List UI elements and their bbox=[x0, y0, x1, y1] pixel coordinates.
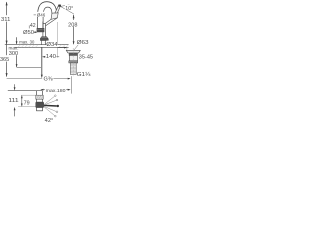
svg-text:G⅜: G⅜ bbox=[44, 76, 54, 82]
svg-text:300: 300 bbox=[9, 51, 19, 57]
svg-text:42: 42 bbox=[30, 23, 36, 29]
node: rod end circles bbox=[54, 95, 57, 117]
svg-text:max.180: max.180 bbox=[46, 88, 66, 94]
shank through deck bbox=[41, 41, 45, 45]
waste body bbox=[69, 55, 77, 60]
gasket bbox=[69, 53, 78, 55]
svg-text:42°: 42° bbox=[45, 118, 54, 124]
wire: left dimension line 311/365 bbox=[6, 2, 8, 76]
svg-text:111: 111 bbox=[8, 98, 18, 104]
node: arrowheads on left dim line bbox=[6, 2, 8, 77]
svg-text:208: 208 bbox=[68, 22, 77, 28]
wire: max180 dimension bbox=[41, 89, 45, 91]
aerator bbox=[37, 28, 44, 32]
label 365 bbox=[0, 55, 10, 63]
deck cross-section bbox=[5, 45, 69, 48]
faucet head bbox=[51, 13, 58, 20]
svg-text:Ø46: Ø46 bbox=[37, 12, 46, 17]
lower ring bbox=[69, 61, 78, 63]
wire: 365 bottom extension to hose end bbox=[7, 77, 43, 79]
spout down tube bbox=[37, 17, 43, 28]
label max. / 300 bbox=[8, 45, 19, 57]
waste tee vertical pipe bbox=[36, 91, 43, 111]
wire: max300 dim line bbox=[16, 37, 18, 67]
faucet spout outer arc bbox=[37, 2, 56, 18]
rod fan positions bbox=[44, 96, 56, 115]
wire: hose-end reference to right bbox=[53, 78, 69, 80]
node: arrowheads on 208 dim line bbox=[73, 15, 75, 45]
svg-text:Ø34: Ø34 bbox=[46, 42, 57, 48]
tail pipe thread lines bbox=[71, 64, 77, 72]
extension lines for 79/111 bbox=[21, 94, 36, 96]
wire: 140 dimension bbox=[43, 56, 46, 58]
svg-text:max. 30: max. 30 bbox=[19, 39, 34, 45]
pop-up waste flange bbox=[66, 50, 80, 53]
svg-text:311: 311 bbox=[1, 17, 10, 23]
waste centerline dashed bbox=[72, 48, 74, 77]
bottom detail: basin reference line bbox=[8, 90, 43, 92]
deck hatching bbox=[18, 45, 68, 47]
label spout dia bbox=[36, 12, 46, 17]
label 10deg bbox=[65, 5, 74, 10]
label D34 on deck bbox=[45, 41, 58, 49]
wire: lower reference line for max300 bbox=[17, 67, 41, 69]
supply tube below deck bbox=[41, 47, 43, 75]
wire: 208 dim line bbox=[73, 15, 75, 44]
faucet body column bbox=[43, 22, 46, 37]
faucet spout inner arc bbox=[43, 7, 52, 17]
svg-text:G1¼: G1¼ bbox=[77, 72, 92, 78]
tee nut bbox=[36, 95, 43, 99]
tail pipe with threads bbox=[70, 63, 76, 74]
svg-text:365: 365 bbox=[0, 57, 9, 63]
svg-text:35-45: 35-45 bbox=[79, 55, 93, 61]
label 208 bbox=[68, 20, 78, 28]
svg-text:140: 140 bbox=[46, 54, 56, 60]
svg-text:10°: 10° bbox=[65, 6, 73, 12]
faucet base flange bbox=[40, 37, 48, 39]
dim 79 bbox=[21, 96, 23, 107]
wire: aux line to waste bbox=[58, 47, 66, 49]
10 degree wedge lines bbox=[60, 6, 73, 13]
svg-text:Ø50: Ø50 bbox=[23, 30, 34, 36]
dim 111 bbox=[14, 84, 16, 87]
svg-text:Ø63: Ø63 bbox=[77, 40, 89, 46]
node: arrowheads on max300 dim line bbox=[16, 41, 18, 67]
lever handle bbox=[55, 5, 61, 13]
tee ball joint bbox=[36, 102, 44, 108]
rod bbox=[44, 104, 57, 107]
label 311 bbox=[1, 15, 11, 23]
extension line from head right edge bbox=[57, 22, 59, 58]
svg-text:79: 79 bbox=[24, 100, 30, 106]
